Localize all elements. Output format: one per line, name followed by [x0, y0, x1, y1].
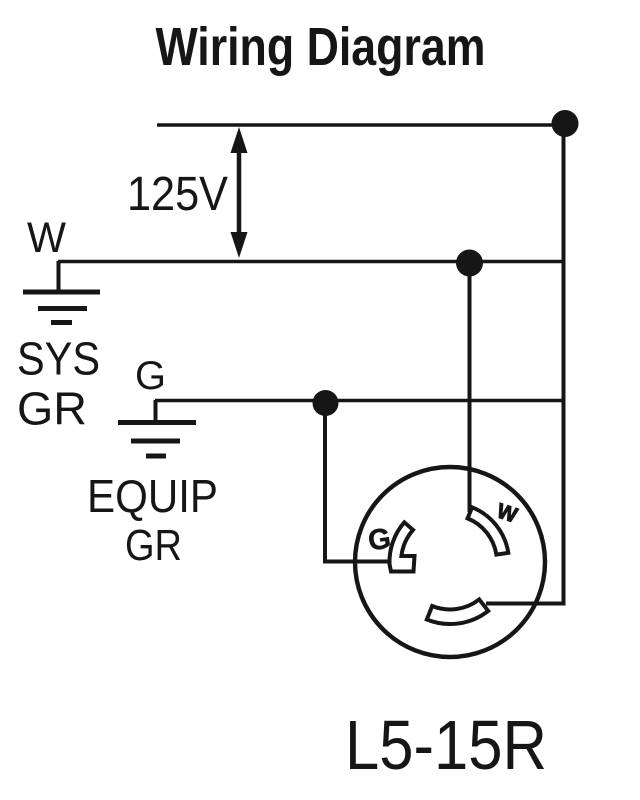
node: junction dot on G line	[313, 390, 339, 416]
svg-text:EQUIP: EQUIP	[87, 470, 218, 522]
receptacle L5-15R: face circle	[355, 467, 545, 657]
svg-text:L5-15R: L5-15R	[345, 706, 547, 784]
ground SYS GR: bar 1	[23, 290, 100, 295]
wire: W neutral line	[58, 260, 564, 264]
ground EQUIP GR: bar 1	[118, 420, 196, 425]
ground SYS GR: bar 2	[38, 306, 87, 311]
receptacle slot hot (bottom)	[427, 599, 488, 624]
svg-text:G: G	[135, 354, 166, 398]
svg-text:W: W	[27, 214, 66, 262]
125V dimension arrow (double-headed)	[231, 127, 248, 258]
ground EQUIP GR: lead	[154, 400, 158, 423]
ground EQUIP GR: bar 2	[131, 439, 180, 444]
ground EQUIP GR: bar 3	[146, 454, 166, 459]
svg-text:GR: GR	[17, 383, 87, 435]
wire: right vertical bus with bottom bend into receptacle	[486, 125, 564, 604]
node: junction dot top right	[552, 110, 579, 137]
svg-text:125V: 125V	[127, 168, 228, 221]
ground SYS GR: lead	[57, 261, 61, 292]
svg-text:Wiring Diagram: Wiring Diagram	[156, 18, 486, 77]
svg-text:SYS: SYS	[17, 333, 100, 385]
receptacle slot G (ground, left, with key notch)	[389, 522, 414, 571]
svg-text:G: G	[366, 523, 393, 558]
svg-text:GR: GR	[125, 522, 182, 570]
wire: top supply line	[157, 123, 564, 127]
wire: G grounding line	[155, 399, 564, 403]
wire: W drop to receptacle	[468, 263, 472, 512]
receptacle slot W (neutral, upper right)	[468, 507, 509, 554]
wire: G branch down and into receptacle	[325, 403, 392, 562]
node: junction dot on W line	[456, 250, 483, 277]
ground SYS GR: bar 3	[51, 320, 72, 325]
